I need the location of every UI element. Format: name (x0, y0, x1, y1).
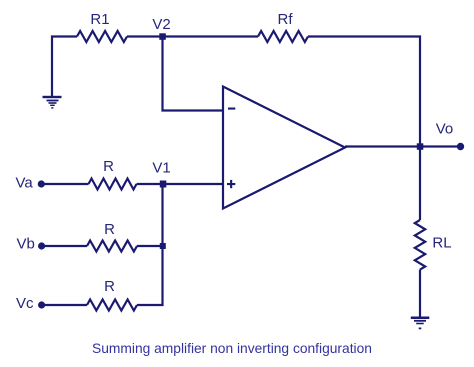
wire V2 to inverting input (163, 37, 224, 111)
resistor R (Vc branch) (87, 300, 137, 311)
wire RL to ground (419, 270, 421, 317)
wire V1 to non-inverting input (163, 183, 224, 185)
node V1 (160, 181, 167, 188)
wire R to Vb junction (137, 245, 163, 247)
node V2 (159, 33, 166, 40)
svg-text:Rf: Rf (278, 11, 294, 28)
svg-text:R: R (104, 278, 115, 295)
resistor R1 (77, 31, 127, 42)
wire R1 to Rf top rail (127, 35, 258, 37)
resistor RL (415, 220, 425, 270)
wire R to node V1 (137, 183, 163, 185)
wire Vc corner up to V1 (137, 184, 163, 305)
wire left vertical to R1 (52, 37, 77, 98)
svg-text:R: R (104, 221, 115, 238)
terminal Va (38, 180, 45, 187)
op-amp U1 (223, 87, 345, 209)
svg-text:V1: V1 (152, 160, 170, 177)
svg-text:R1: R1 (90, 11, 109, 28)
junction output (417, 143, 424, 150)
svg-text:Vc: Vc (16, 295, 34, 312)
svg-text:Summing amplifier non invertin: Summing amplifier non inverting configur… (92, 341, 372, 356)
wire Vb input (45, 245, 88, 247)
ground (right) (411, 317, 430, 330)
wire output (345, 145, 460, 147)
wire Vc input (45, 304, 88, 306)
svg-text:Vo: Vo (436, 121, 454, 138)
svg-text:Vb: Vb (17, 236, 35, 253)
op-amp minus sign (228, 108, 235, 110)
ground (left) (43, 96, 62, 109)
svg-text:Va: Va (16, 175, 34, 192)
svg-text:RL: RL (432, 235, 451, 252)
op-amp plus sign (227, 180, 235, 188)
resistor R (Va branch) (89, 179, 137, 190)
wire Va input (45, 183, 89, 185)
terminal Vb (38, 242, 45, 249)
svg-text:R: R (103, 158, 114, 175)
resistor R (Vb branch) (87, 241, 137, 252)
resistor Rf (258, 31, 308, 42)
svg-text:V2: V2 (152, 16, 170, 33)
wire Rf to right rail down to RL (308, 37, 420, 221)
junction Vb (160, 243, 166, 249)
terminal Vc (38, 301, 45, 308)
terminal Vo (457, 143, 464, 150)
